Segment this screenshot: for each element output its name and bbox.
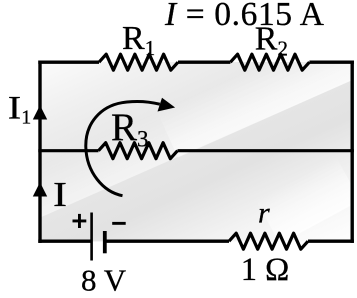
svg-text:r: r [258, 197, 270, 230]
svg-text:1 Ω: 1 Ω [241, 252, 290, 288]
wire: middle branch right segment [178, 149, 354, 152]
arrowhead of loop current arc [158, 98, 176, 112]
wire: right vertical branch [351, 61, 354, 243]
svg-text:I: I [53, 175, 67, 214]
resistor R3 [99, 143, 178, 159]
wire: bottom branch right segment [308, 239, 354, 242]
resistor R2 [230, 54, 309, 70]
battery + polarity label [73, 214, 87, 228]
svg-text:R1: R1 [122, 20, 155, 60]
current arrow I on left branch (lower) [33, 182, 47, 196]
resistor r (internal resistance) [229, 233, 308, 249]
wire: middle branch left segment [38, 149, 98, 152]
diagonal highlight sheen inside circuit (brighter upper-right part) [157, 32, 357, 158]
wire: bottom branch middle segment (battery to r) [105, 239, 229, 242]
battery positive plate (long) [90, 213, 93, 261]
wire: left vertical branch [38, 61, 41, 243]
svg-text:I = 0.615 A: I = 0.615 A [164, 0, 324, 33]
diagonal highlight sheen inside circuit (lower-right wedge) [256, 157, 357, 244]
wire: top branch left segment [38, 61, 99, 64]
svg-text:I1: I1 [8, 90, 31, 128]
current arrow I1 on left branch (upper) [33, 105, 47, 119]
resistor R1 [99, 54, 178, 70]
wire: top branch middle segment [178, 61, 230, 64]
diagonal highlight sheen inside circuit (full band) [9, 32, 357, 222]
battery − polarity label [112, 222, 126, 225]
battery negative plate (short) [103, 231, 107, 253]
wire: bottom branch left segment (to battery + plate) [38, 239, 91, 242]
shaded interior of circuit [40, 62, 352, 241]
wire: top branch right segment [309, 61, 354, 64]
loop current direction arc around R3 [86, 101, 160, 195]
svg-text:8 V: 8 V [81, 262, 127, 297]
